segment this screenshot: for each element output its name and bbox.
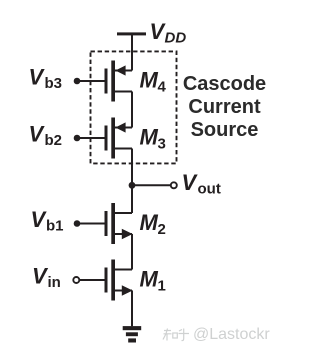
transistor M2 drain lead (113, 212, 132, 214)
svg-text:V: V (31, 207, 48, 232)
transistor M4 source lead (113, 70, 132, 72)
transistor M2 gate bar (105, 211, 108, 236)
svg-text:3: 3 (158, 136, 166, 153)
label M4 (140, 68, 167, 96)
transistor M3 gate lead wire (77, 137, 105, 139)
svg-text:@Lastockr: @Lastockr (193, 326, 270, 343)
svg-text:4: 4 (158, 79, 167, 96)
transistor M1 gate lead wire (79, 279, 104, 281)
ground symbol (123, 326, 142, 342)
transistor M2 channel bar (111, 203, 115, 244)
svg-text:out: out (198, 181, 221, 198)
wire M3 drain to node and M2 drain (131, 149, 133, 214)
VDD supply bar (117, 32, 146, 35)
svg-text:Cascode: Cascode (183, 73, 266, 95)
node Vb1 bias dot (74, 220, 81, 227)
transistor M3 drain lead (113, 148, 132, 150)
wire M2 source to M1 drain (131, 234, 133, 270)
wire VDD rail to M4 source (131, 35, 133, 71)
dashed box: cascode current source outline (91, 51, 177, 163)
wire M4 drain to M3 source (131, 92, 133, 128)
label Vin (32, 264, 61, 292)
transistor M1 source lead (113, 290, 132, 292)
svg-text:M: M (140, 68, 159, 93)
transistor M3 gate bar (105, 126, 108, 151)
wire M1 source to ground (131, 291, 133, 327)
wire node to Vout terminal (132, 184, 171, 186)
transistor M4 gate bar (105, 69, 108, 94)
annotation: Cascode Current Source (183, 73, 266, 141)
svg-text:V: V (182, 170, 199, 195)
transistor M4 PMOS arrow (115, 65, 125, 75)
svg-text:DD: DD (165, 30, 187, 47)
svg-text:2: 2 (158, 221, 166, 238)
transistor M3 source lead (113, 127, 132, 129)
svg-text:V: V (29, 122, 46, 147)
svg-text:b3: b3 (45, 75, 63, 92)
label Vb2 (29, 122, 63, 150)
transistor M1 gate bar (105, 268, 108, 293)
transistor M3 PMOS arrow (115, 122, 125, 132)
transistor M4 gate lead wire (77, 80, 105, 82)
transistor M1 drain lead (113, 269, 132, 271)
svg-text:Source: Source (191, 119, 259, 141)
label M3 (140, 125, 166, 153)
node Vb2 bias dot (74, 135, 81, 142)
label M1 (140, 267, 166, 295)
label Vb3 (29, 65, 63, 93)
transistor M2 source lead (113, 233, 132, 235)
svg-text:Current: Current (188, 96, 261, 118)
label Vb1 (31, 207, 64, 235)
svg-text:b2: b2 (45, 132, 63, 149)
svg-text:V: V (32, 264, 49, 289)
watermark: zhihu @Lastockr (163, 329, 189, 341)
Vin open terminal circle (73, 277, 79, 283)
node Vb3 bias dot (74, 78, 81, 85)
node: output junction dot (129, 182, 136, 189)
svg-text:b1: b1 (46, 218, 64, 235)
transistor M2 gate lead wire (80, 223, 105, 225)
svg-text:M: M (140, 267, 159, 292)
svg-text:V: V (29, 65, 46, 90)
svg-text:M: M (140, 210, 159, 235)
label Vout (182, 170, 221, 198)
Vout open terminal circle (171, 182, 177, 188)
transistor M3 channel bar (111, 118, 115, 159)
transistor M2 NMOS arrow (122, 229, 133, 240)
transistor M4 channel bar (111, 61, 115, 102)
label M2 (140, 210, 166, 238)
svg-text:1: 1 (158, 278, 166, 295)
transistor M1 channel bar (111, 260, 115, 301)
transistor M1 NMOS arrow (122, 285, 133, 296)
svg-text:in: in (48, 274, 61, 291)
svg-text:M: M (140, 125, 159, 150)
label VDD (150, 19, 187, 47)
transistor M4 drain lead (113, 91, 132, 93)
